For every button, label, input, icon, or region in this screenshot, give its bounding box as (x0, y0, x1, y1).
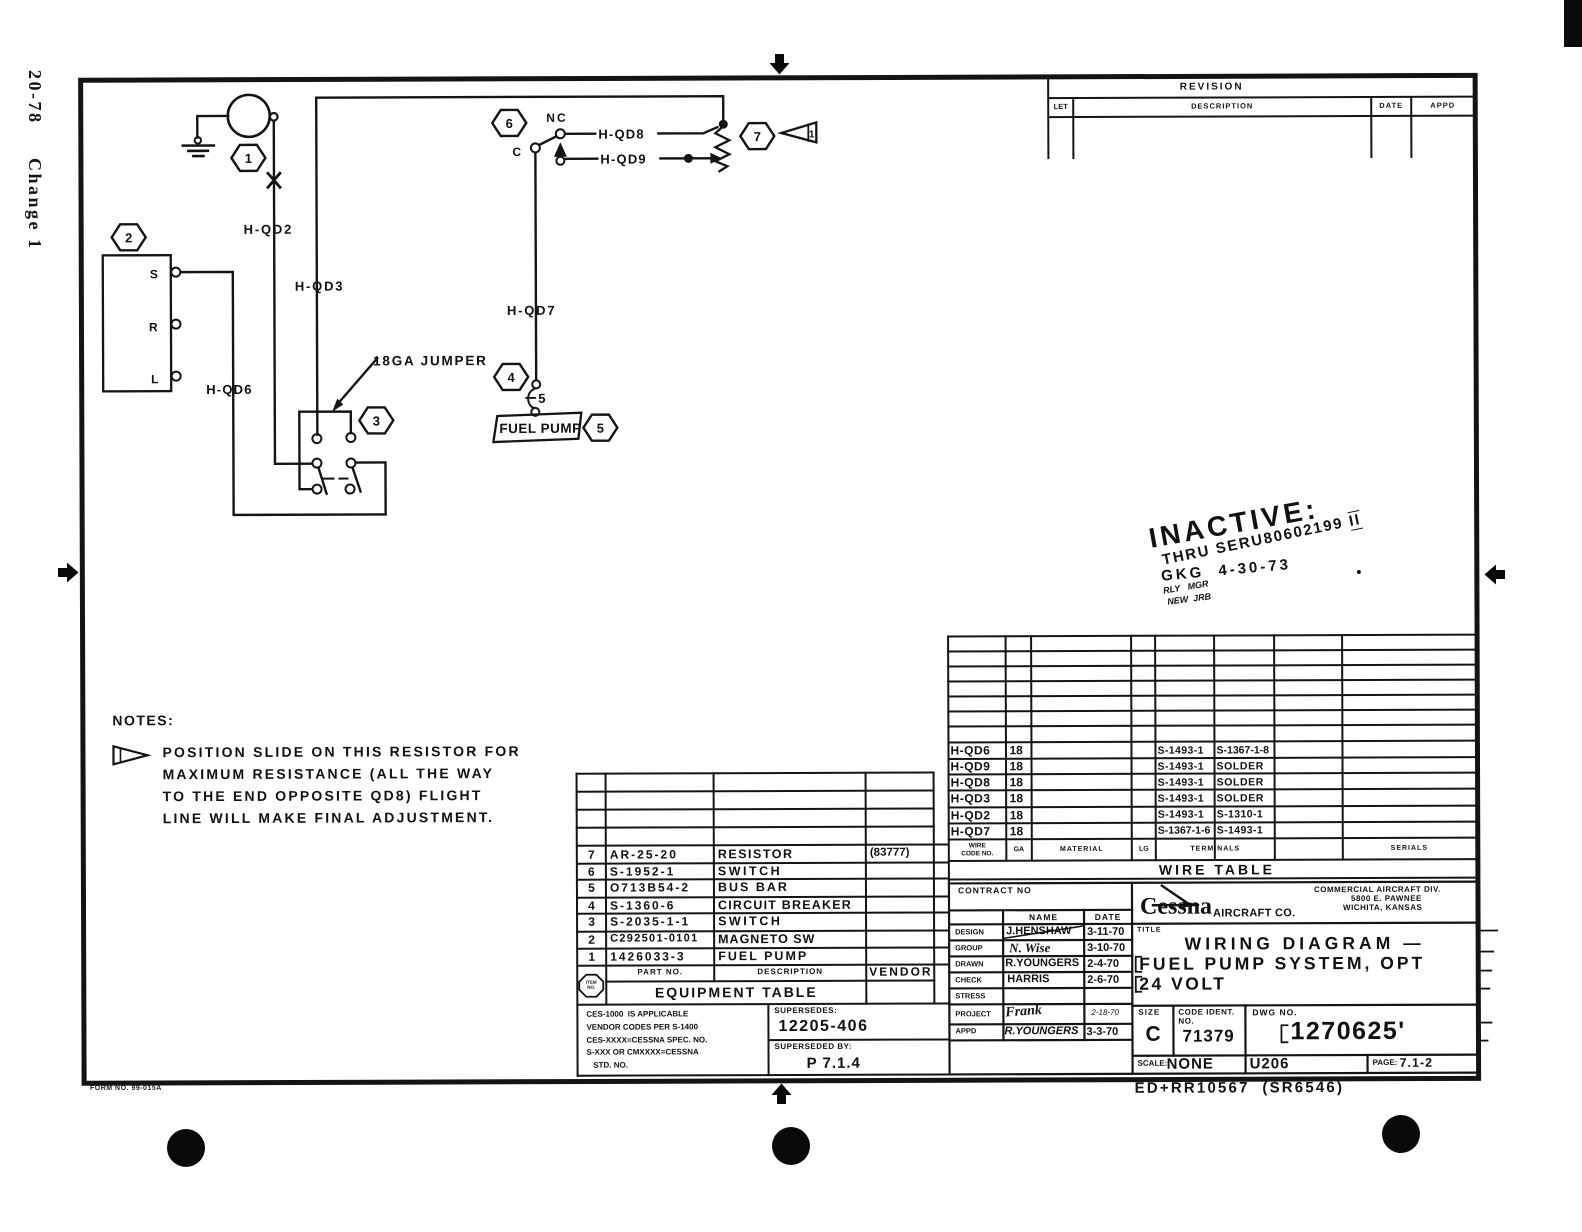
svg-text:1: 1 (245, 151, 252, 166)
svg-text:FUEL PUMP: FUEL PUMP (499, 421, 581, 436)
svg-text:H-QD6: H-QD6 (206, 382, 253, 397)
svg-text:R: R (149, 320, 158, 334)
svg-text:4: 4 (508, 370, 516, 385)
svg-text:H-QD9: H-QD9 (600, 151, 647, 166)
svg-text:S: S (150, 267, 158, 281)
svg-text:C: C (512, 145, 521, 159)
svg-text:18GA JUMPER: 18GA JUMPER (373, 353, 488, 368)
svg-text:L: L (151, 372, 158, 386)
svg-text:1: 1 (809, 129, 815, 140)
svg-text:3: 3 (373, 413, 380, 428)
svg-text:H-QD3: H-QD3 (295, 279, 345, 294)
svg-text:5: 5 (597, 421, 604, 436)
svg-text:2: 2 (125, 230, 132, 245)
svg-text:5: 5 (538, 391, 545, 406)
svg-text:7: 7 (754, 129, 761, 144)
svg-text:NC: NC (546, 111, 567, 125)
svg-text:6: 6 (506, 116, 513, 131)
svg-text:H-QD8: H-QD8 (598, 127, 645, 142)
svg-text:H-QD7: H-QD7 (507, 303, 557, 318)
svg-text:H-QD2: H-QD2 (244, 222, 294, 237)
